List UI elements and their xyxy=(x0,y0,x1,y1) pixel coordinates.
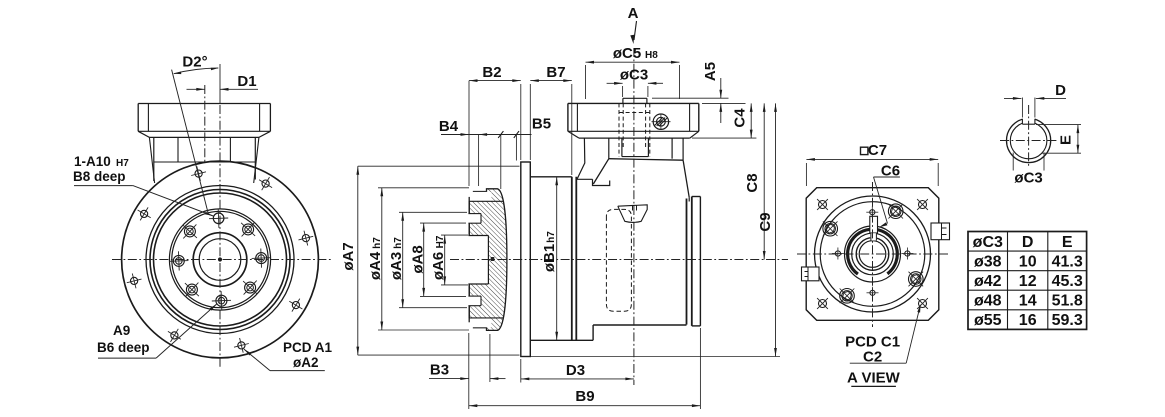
svg-text:B5: B5 xyxy=(532,116,551,133)
svg-text:ø48: ø48 xyxy=(974,293,1002,310)
svg-text:H7: H7 xyxy=(116,158,129,169)
svg-text:ø42: ø42 xyxy=(974,273,1002,290)
svg-text:øA4: øA4 xyxy=(367,251,384,280)
svg-text:øA7: øA7 xyxy=(340,242,357,270)
svg-text:A: A xyxy=(628,5,639,22)
svg-text:51.8: 51.8 xyxy=(1052,293,1083,310)
svg-text:12: 12 xyxy=(1019,273,1037,290)
svg-text:B2: B2 xyxy=(482,64,501,81)
svg-text:øC5: øC5 xyxy=(613,45,641,62)
svg-text:B4: B4 xyxy=(439,118,459,135)
svg-text:16: 16 xyxy=(1019,312,1037,329)
svg-text:D3: D3 xyxy=(566,362,585,379)
svg-text:B7: B7 xyxy=(546,64,565,81)
svg-text:PCD A1: PCD A1 xyxy=(283,340,333,355)
svg-text:B3: B3 xyxy=(430,362,449,379)
svg-text:D1: D1 xyxy=(237,73,256,90)
svg-text:D: D xyxy=(1022,234,1034,251)
svg-text:C4: C4 xyxy=(732,108,749,128)
svg-text:øA8: øA8 xyxy=(410,245,427,273)
svg-text:C9: C9 xyxy=(757,212,774,231)
svg-text:E: E xyxy=(1058,135,1075,145)
svg-text:h7: h7 xyxy=(393,237,404,249)
svg-text:øA3: øA3 xyxy=(388,252,405,280)
svg-text:øC3: øC3 xyxy=(620,67,648,84)
svg-text:C8: C8 xyxy=(744,173,761,192)
svg-text:h7: h7 xyxy=(546,231,557,243)
svg-text:D: D xyxy=(1055,82,1066,99)
svg-text:A9: A9 xyxy=(113,323,130,338)
svg-text:øA6: øA6 xyxy=(430,252,447,280)
svg-text:14: 14 xyxy=(1019,293,1037,310)
svg-text:A5: A5 xyxy=(702,62,719,81)
svg-text:B9: B9 xyxy=(575,388,594,405)
svg-text:45.3: 45.3 xyxy=(1052,273,1083,290)
svg-text:B6 deep: B6 deep xyxy=(97,340,150,355)
svg-text:59.3: 59.3 xyxy=(1052,312,1083,329)
svg-text:D2°: D2° xyxy=(182,54,207,71)
svg-text:10: 10 xyxy=(1019,253,1037,270)
svg-text:H8: H8 xyxy=(645,50,658,61)
svg-text:h7: h7 xyxy=(372,237,383,249)
svg-text:ø55: ø55 xyxy=(974,312,1002,329)
svg-text:øA2: øA2 xyxy=(293,355,319,370)
svg-text:øB1: øB1 xyxy=(541,244,558,272)
svg-text:H7: H7 xyxy=(435,235,446,248)
svg-text:øC3: øC3 xyxy=(1014,170,1042,187)
svg-text:E: E xyxy=(1062,234,1073,251)
svg-text:1-A10: 1-A10 xyxy=(74,154,111,169)
svg-text:B8 deep: B8 deep xyxy=(73,169,126,184)
svg-text:A VIEW: A VIEW xyxy=(847,370,901,387)
svg-text:øC3: øC3 xyxy=(973,234,1003,251)
svg-text:ø38: ø38 xyxy=(974,253,1002,270)
svg-text:C7: C7 xyxy=(868,142,887,159)
svg-text:41.3: 41.3 xyxy=(1052,253,1083,270)
